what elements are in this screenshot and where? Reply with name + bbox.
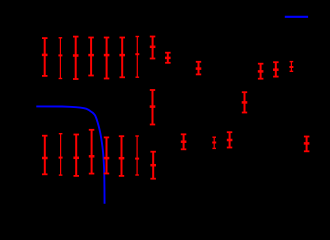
blue legend line (top right): [285, 16, 308, 18]
error bar: data point 20 (bottom-left series): [104, 137, 110, 173]
error bar: data point 8 (top-left series): [150, 37, 156, 59]
error bar: data point 14: [273, 62, 279, 76]
blue model curve: [36, 106, 104, 203]
error bar: data point 23 (bottom-left series): [150, 152, 156, 179]
error bar: data point 3 (top-left series): [73, 37, 79, 79]
error bar: data point 9: [165, 53, 171, 63]
error bar: data point 4 (top-left series): [88, 38, 94, 76]
error bar: data point 6 (top-left series): [119, 38, 125, 78]
error bar: data point 11 (mid height): [150, 90, 156, 125]
error bar: data point 26 (bottom-right group): [227, 132, 233, 147]
error bar: data point 18 (bottom-left series): [73, 135, 79, 176]
error bar: data point 22 (thin, bottom-left series): [135, 136, 139, 175]
error bar: data point 27 (bottom-right group): [304, 137, 310, 152]
error bar: data point 16 (bottom-left series): [42, 136, 48, 175]
error bar: data point 7 (thin, top-left series): [135, 37, 139, 78]
error bar: data point 2 (thin, top-left series): [58, 38, 62, 79]
error bar: data point 15 (thin): [289, 62, 293, 72]
error bar: data point 12: [242, 92, 248, 112]
error bar: data point 19 (bottom-left series): [89, 130, 95, 174]
error bar: data point 1 (top-left series): [42, 38, 48, 76]
error bar: data point 5 (top-left series): [104, 38, 110, 79]
error bar: data point 10: [196, 62, 202, 75]
error bar: data point 13: [258, 64, 264, 79]
error bar: data point 17 (thin, bottom-left series): [59, 134, 63, 175]
error bar: data point 24 (bottom-right group): [181, 134, 187, 149]
error bar: data point 25 (thin, bottom-right group): [212, 137, 216, 148]
error bar: data point 21 (bottom-left series): [119, 136, 125, 176]
